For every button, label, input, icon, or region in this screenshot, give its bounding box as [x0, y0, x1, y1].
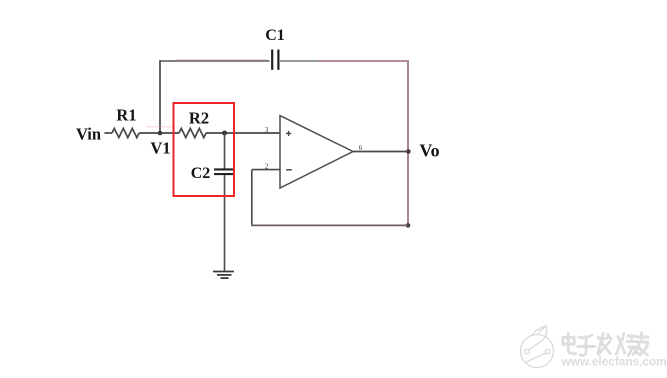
- svg-text:Vo: Vo: [419, 141, 439, 161]
- svg-text:Vin: Vin: [76, 125, 101, 144]
- svg-text:C2: C2: [191, 165, 211, 182]
- svg-text:3: 3: [265, 126, 269, 134]
- svg-text:www.elecfans.com: www.elecfans.com: [561, 355, 667, 369]
- svg-text:R1: R1: [116, 106, 136, 125]
- svg-text:V1: V1: [150, 139, 170, 158]
- svg-text:2: 2: [265, 163, 269, 171]
- svg-text:C1: C1: [265, 27, 285, 44]
- svg-text:R2: R2: [189, 109, 209, 128]
- svg-text:6: 6: [359, 144, 363, 152]
